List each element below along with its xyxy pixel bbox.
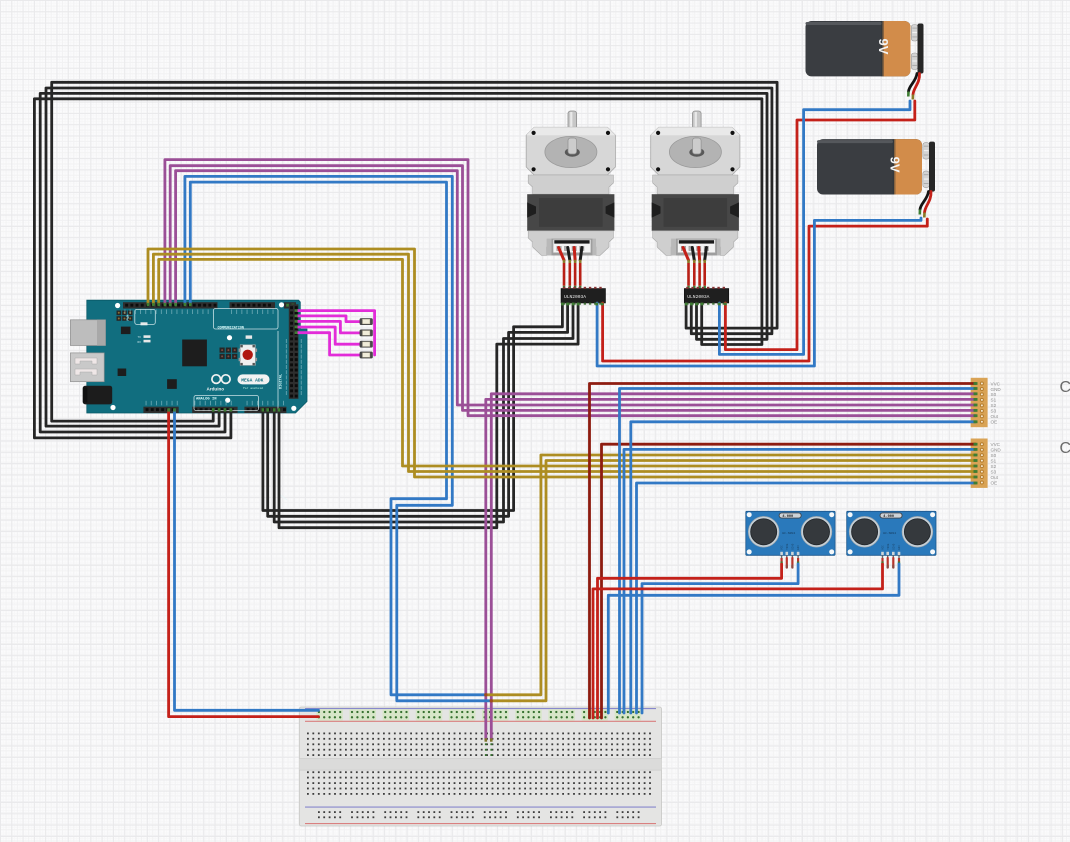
label Conn1: [1060, 379, 1070, 396]
wire magenta Arduino-D30 to LED4: [298, 333, 360, 355]
svg-text:COMMUNICATION: COMMUNICATION: [218, 326, 244, 330]
svg-text:GND: GND: [797, 545, 800, 550]
wire blue sensor1 GND to breadboard rail: [642, 564, 798, 713]
junction B (blue/gold/purple): [490, 699, 493, 702]
ultrasonic sensor S1 HC-SR04: [746, 511, 835, 567]
wire black ULN1 IN4 to Arduino-A13: [279, 303, 578, 528]
connector J2 8-pin: [971, 439, 1002, 488]
purple wire end tip 2: [490, 738, 493, 741]
LED D4: [360, 352, 373, 358]
stepper motor M2: [651, 111, 740, 288]
wire purple breadboard to Conn1 S1: [486, 399, 976, 739]
connector wire end tips: [974, 384, 978, 484]
svg-text:TRIG: TRIG: [887, 543, 890, 550]
wire gold Arduino-D4 to Conn2 S2: [159, 259, 976, 466]
battery BT1 leads: [908, 74, 919, 100]
wire red battery2 to ULN1 COM: [603, 219, 928, 361]
wire black ULN1 IN3 to Arduino-A12: [274, 303, 573, 522]
Arduino wire end tips: [148, 303, 298, 412]
svg-text:Arduino: Arduino: [207, 387, 225, 392]
wire blue Arduino-D8 to junction B: [185, 176, 491, 700]
svg-text:S2: S2: [991, 403, 997, 408]
driver IC ULN2003A U3: [684, 287, 729, 305]
wire black Arduino-A2 to ULN2 IN1: [52, 82, 777, 421]
svg-text:S0: S0: [991, 392, 997, 397]
svg-text:HC-SR04: HC-SR04: [782, 531, 795, 535]
wire red battery1 to ULN2 COM: [725, 101, 914, 350]
wire black ULN1 IN1 to Arduino-A10: [263, 303, 563, 511]
wire purple Arduino-D5 to Conn1 Out: [165, 160, 976, 416]
wire magenta Arduino-D22 LED common bus: [298, 311, 375, 355]
svg-text:S0: S0: [991, 453, 997, 458]
svg-text:Co: Co: [1060, 379, 1070, 396]
wire blue Conn2 OE to breadboard rail: [637, 483, 976, 713]
svg-text:OE: OE: [991, 420, 998, 425]
svg-text:RX: RX: [138, 341, 142, 344]
svg-text:4.000: 4.000: [883, 515, 894, 519]
svg-text:ECHO: ECHO: [892, 543, 895, 550]
wire magenta Arduino-D28 to LED3: [298, 327, 360, 344]
svg-text:ULN2003A: ULN2003A: [564, 294, 586, 300]
wire blue Conn2 GND to breadboard rail: [624, 449, 976, 713]
svg-text:HC-SR04: HC-SR04: [883, 531, 896, 535]
battery BT2 9V: [817, 139, 935, 194]
wire black Arduino-A5 to ULN2 IN4: [34, 99, 762, 438]
wire purple breadboard to Conn1 S0: [491, 394, 975, 740]
ultrasonic sensor S2 HC-SR04: [847, 511, 936, 567]
LED D1: [360, 319, 373, 325]
junction A (blue/gold/purple): [484, 693, 487, 696]
label Conn2: [1060, 440, 1070, 457]
battery BT2 leads: [920, 192, 931, 218]
svg-text:VCC: VCC: [781, 545, 784, 550]
ULN wire end tips: [562, 303, 725, 306]
wire gold junction A to Conn2 S0: [486, 455, 976, 695]
wire blue Conn1 OE to breadboard rail: [631, 422, 976, 713]
svg-text:MEGA ADK: MEGA ADK: [241, 378, 263, 384]
wire gold Arduino-D2 to Conn2 Out: [148, 249, 976, 477]
purple wire end tip 1: [485, 738, 488, 741]
svg-text:for android: for android: [243, 386, 263, 390]
svg-text:VVC: VVC: [991, 381, 1001, 386]
wire magenta Arduino-D24 to LED1: [298, 316, 360, 322]
svg-text:S2: S2: [991, 464, 997, 469]
svg-text:S1: S1: [991, 398, 997, 403]
svg-text:ECHO: ECHO: [792, 543, 795, 550]
svg-text:Co: Co: [1060, 440, 1070, 457]
wire dark-red Conn2 VVC to breadboard rail: [602, 444, 976, 718]
LED D2: [360, 330, 373, 336]
svg-text:S3: S3: [991, 469, 997, 474]
Arduino Mega ADK board U1: [70, 300, 307, 500]
wire blue sensor2 GND to breadboard rail: [608, 564, 899, 713]
svg-text:S3: S3: [991, 409, 997, 414]
wire red sensor1 VCC to breadboard rail: [598, 564, 782, 718]
wire black Arduino-A3 to ULN2 IN2: [46, 88, 772, 426]
stepper motor M1: [526, 111, 615, 288]
wire blue Arduino-D9 to junction A: [190, 182, 486, 695]
svg-text:S1: S1: [991, 458, 997, 463]
wire blue battery2 to ULN1 GND: [597, 218, 921, 366]
wire blue Conn1 GND to breadboard rail: [620, 389, 976, 714]
wire purple Arduino-D6 to Conn1 S3: [170, 166, 975, 411]
svg-text:VVC: VVC: [991, 442, 1001, 447]
svg-text:TRIG: TRIG: [786, 543, 789, 550]
wire red Arduino-5V to breadboard rail: [169, 410, 319, 717]
wire red sensor2 VCC to breadboard rail: [593, 564, 883, 718]
svg-text:9V: 9V: [876, 39, 891, 55]
svg-text:OE: OE: [991, 480, 998, 485]
svg-text:GND: GND: [991, 387, 1002, 392]
wire purple Arduino-D7 to Conn1 S2: [176, 171, 976, 405]
svg-text:GND: GND: [991, 448, 1002, 453]
wire blue Arduino-GND to breadboard rail: [175, 410, 319, 710]
svg-text:Out: Out: [991, 414, 999, 419]
wire blue battery1 to ULN2 GND: [719, 101, 910, 354]
wire gold Arduino-D3 to Conn2 S3: [153, 254, 975, 471]
svg-text:VCC: VCC: [882, 545, 885, 550]
wire gold junction B to Conn2 S1: [491, 461, 975, 701]
LED D3: [360, 341, 373, 347]
svg-text:GND: GND: [898, 545, 901, 550]
breadboard: [299, 707, 661, 826]
svg-text:ULN2003A: ULN2003A: [687, 294, 709, 300]
wire dark-red Conn1 VVC to breadboard rail: [590, 384, 976, 719]
wire magenta Arduino-D26 to LED2: [298, 321, 360, 333]
svg-text:ANALOG IN: ANALOG IN: [196, 398, 217, 402]
svg-text:DIGITAL: DIGITAL: [280, 374, 284, 389]
svg-text:PWM: PWM: [126, 315, 130, 321]
driver IC ULN2003A U2: [561, 287, 606, 305]
connector J1 8-pin: [971, 378, 1002, 427]
battery BT1 9V: [806, 21, 924, 76]
svg-text:9V: 9V: [888, 157, 903, 173]
svg-text:4.000: 4.000: [782, 515, 793, 519]
svg-text:Out: Out: [991, 475, 999, 480]
svg-text:TX: TX: [138, 336, 142, 339]
wire black Arduino-A4 to ULN2 IN3: [40, 93, 767, 432]
wire black ULN1 IN2 to Arduino-A11: [268, 303, 568, 516]
